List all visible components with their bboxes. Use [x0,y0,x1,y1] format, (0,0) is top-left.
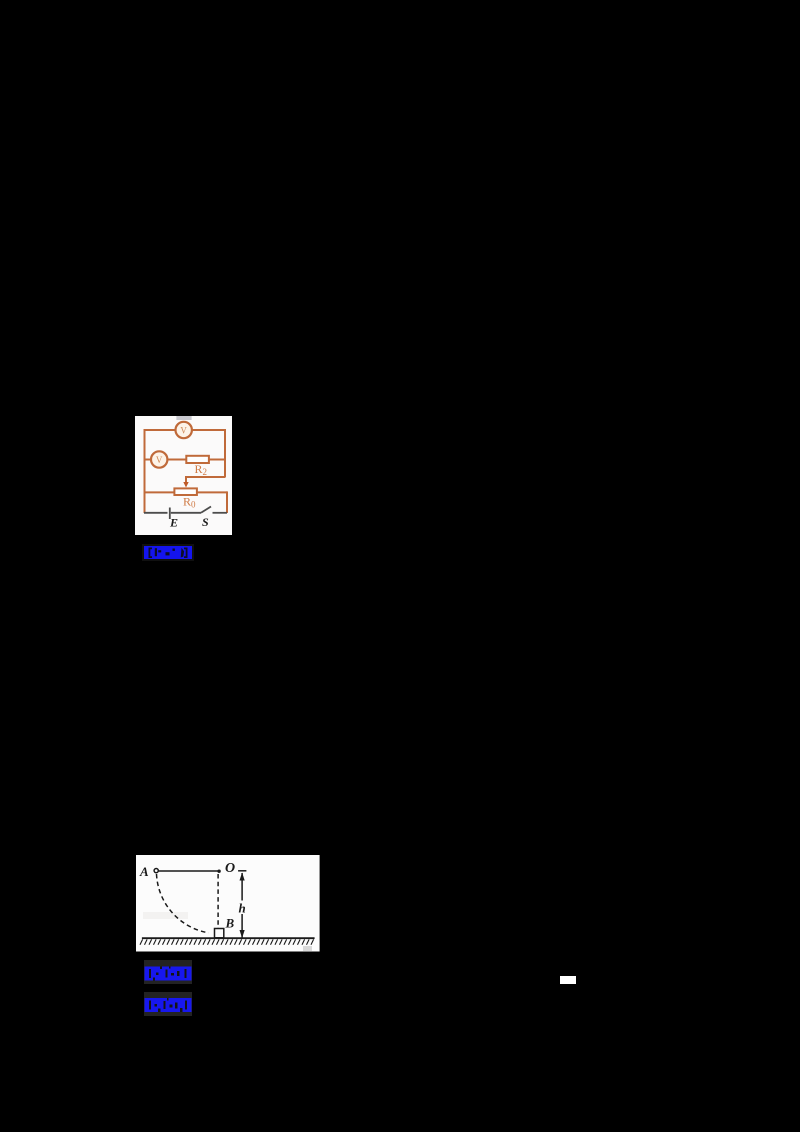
svg-text:O: O [225,861,235,876]
svg-text:S: S [202,515,209,529]
svg-text:h: h [239,900,246,915]
svg-text:B: B [225,915,235,930]
svg-text:E: E [169,515,178,529]
svg-text:A: A [139,864,149,879]
svg-text:V: V [180,425,187,435]
svg-text:V: V [156,454,163,464]
